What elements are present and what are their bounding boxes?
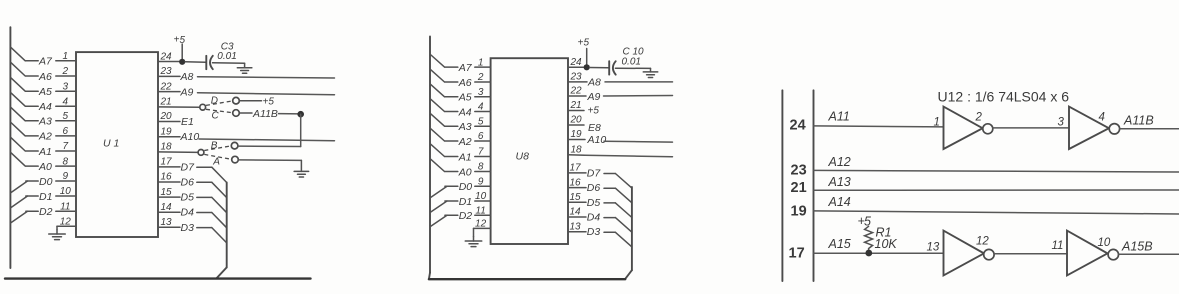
U8 pin 21 +5 bbox=[568, 100, 599, 116]
svg-text:A14: A14 bbox=[828, 195, 851, 209]
svg-text:D4: D4 bbox=[587, 212, 601, 224]
ground (C10) bbox=[643, 68, 658, 77]
svg-text:8: 8 bbox=[63, 156, 69, 167]
U8 pin 7 A1 bbox=[430, 144, 490, 163]
svg-text:6: 6 bbox=[63, 126, 69, 137]
svg-text:A7: A7 bbox=[458, 62, 473, 74]
U8 pin 6 A2 bbox=[430, 128, 490, 147]
U8 pin 8 A0 bbox=[430, 159, 490, 178]
pin 23 label bbox=[791, 163, 807, 179]
svg-text:14: 14 bbox=[570, 207, 582, 218]
svg-text:A0: A0 bbox=[458, 166, 472, 178]
svg-text:4: 4 bbox=[63, 96, 69, 107]
U1 pin 3 A5 bbox=[11, 78, 76, 98]
U8 pin 20 E8 bbox=[568, 115, 601, 134]
svg-text:21: 21 bbox=[160, 97, 172, 108]
wire A10 (U8) bbox=[604, 140, 673, 143]
junction dot (U1 pin 24) bbox=[179, 59, 185, 65]
svg-text:21: 21 bbox=[791, 180, 807, 196]
svg-text:19: 19 bbox=[161, 126, 173, 137]
svg-text:2: 2 bbox=[975, 112, 983, 124]
svg-text:A13: A13 bbox=[828, 175, 851, 189]
wire A15 bbox=[814, 252, 944, 254]
svg-text:A8: A8 bbox=[180, 71, 194, 83]
wire pin 18 (U8) bbox=[585, 155, 673, 156]
U8 pin 19 A10 bbox=[568, 129, 606, 146]
svg-text:20: 20 bbox=[160, 111, 173, 122]
capacitor C10 0.01 bbox=[609, 47, 644, 75]
svg-text:D1: D1 bbox=[459, 196, 472, 208]
svg-text:D2: D2 bbox=[39, 206, 53, 218]
svg-text:U 1: U 1 bbox=[103, 138, 119, 150]
svg-text:A11B: A11B bbox=[252, 108, 278, 120]
svg-text:B: B bbox=[211, 141, 218, 152]
svg-text:16: 16 bbox=[570, 177, 582, 188]
wire A11B out bbox=[1120, 128, 1179, 130]
wire A12 bbox=[814, 170, 1179, 172]
U1 pin 23 A8 bbox=[158, 66, 194, 83]
svg-text:18: 18 bbox=[571, 145, 583, 156]
svg-text:12: 12 bbox=[976, 236, 989, 248]
svg-text:9: 9 bbox=[478, 177, 484, 188]
junction node A15/R1 bbox=[865, 250, 872, 257]
svg-text:D3: D3 bbox=[587, 226, 601, 238]
svg-text:A3: A3 bbox=[458, 121, 472, 133]
svg-text:4: 4 bbox=[478, 102, 484, 113]
wire to C10 bbox=[590, 67, 609, 69]
svg-text:10K: 10K bbox=[875, 237, 898, 251]
svg-text:2: 2 bbox=[62, 66, 69, 77]
svg-text:13: 13 bbox=[570, 221, 582, 232]
wire to C3 bbox=[185, 61, 205, 63]
U8 pin 5 A3 bbox=[430, 114, 490, 133]
svg-text:+5: +5 bbox=[263, 96, 275, 107]
svg-text:A3: A3 bbox=[38, 116, 52, 128]
svg-text:A15B: A15B bbox=[1121, 240, 1153, 254]
U8 pin 2 A6 bbox=[430, 69, 490, 88]
svg-text:20: 20 bbox=[570, 115, 583, 126]
svg-text:D0: D0 bbox=[459, 181, 473, 193]
IC U1 bbox=[76, 52, 158, 237]
svg-text:C: C bbox=[212, 110, 220, 121]
svg-text:6: 6 bbox=[478, 131, 484, 142]
svg-text:5: 5 bbox=[63, 111, 69, 122]
svg-text:24: 24 bbox=[790, 118, 806, 134]
svg-text:4: 4 bbox=[1099, 112, 1105, 124]
U1 pin 24 stub bbox=[158, 51, 182, 62]
connector edge line (right) bbox=[813, 90, 815, 281]
pin 19 label bbox=[791, 204, 807, 220]
svg-text:22: 22 bbox=[160, 81, 173, 92]
svg-text:U12 : 1/6 74LS04 x 6: U12 : 1/6 74LS04 x 6 bbox=[938, 89, 1070, 105]
U8 pin 11 D2 bbox=[430, 205, 490, 226]
svg-text:5: 5 bbox=[180, 35, 186, 46]
svg-text:A15: A15 bbox=[828, 237, 851, 251]
inverter U12A (pins 1-2) bbox=[934, 107, 993, 149]
svg-text:3: 3 bbox=[478, 87, 484, 98]
svg-text:10: 10 bbox=[475, 191, 487, 202]
svg-text:14: 14 bbox=[161, 202, 173, 213]
svg-text:D2: D2 bbox=[459, 210, 473, 222]
svg-text:16: 16 bbox=[161, 172, 173, 183]
svg-text:1: 1 bbox=[63, 51, 69, 62]
svg-text:13: 13 bbox=[161, 217, 173, 228]
net label A13 bbox=[828, 175, 851, 189]
U8 pin 13 D3 bbox=[568, 221, 632, 247]
pin 17 label bbox=[789, 246, 805, 262]
input bus (U8 left) bbox=[429, 37, 430, 280]
+5 supply (R1) bbox=[858, 214, 872, 228]
svg-text:A4: A4 bbox=[458, 106, 472, 118]
svg-text:D5: D5 bbox=[181, 192, 195, 204]
U1 pin 22 A9 bbox=[158, 81, 194, 98]
U1 pin 15 D5 bbox=[158, 187, 227, 213]
U1 pin 1 A7 bbox=[11, 47, 76, 67]
U1 pin 4 A4 bbox=[11, 93, 76, 113]
ground (C3) bbox=[237, 63, 252, 73]
U1 pin 14 D4 bbox=[158, 202, 227, 228]
svg-text:1: 1 bbox=[478, 57, 484, 68]
net label A15B bbox=[1121, 240, 1153, 254]
net label A11B bbox=[252, 108, 278, 120]
wire A10 bbox=[199, 139, 335, 141]
svg-text:22: 22 bbox=[570, 86, 583, 97]
U1 pin 8 A0 bbox=[11, 153, 76, 173]
svg-text:A9: A9 bbox=[587, 91, 601, 103]
U8 pin 3 A5 bbox=[430, 84, 490, 103]
svg-text:17: 17 bbox=[570, 163, 582, 174]
IC U8 bbox=[491, 58, 568, 244]
svg-text:24: 24 bbox=[570, 57, 583, 68]
svg-text:17: 17 bbox=[161, 157, 173, 168]
svg-text:D1: D1 bbox=[39, 191, 52, 203]
svg-text:0.01: 0.01 bbox=[622, 56, 641, 67]
svg-text:A0: A0 bbox=[38, 161, 52, 173]
svg-text:10: 10 bbox=[60, 186, 72, 197]
svg-text:11: 11 bbox=[60, 201, 70, 212]
svg-text:+5: +5 bbox=[588, 106, 600, 117]
svg-text:18: 18 bbox=[161, 142, 173, 153]
svg-text:A12: A12 bbox=[828, 155, 851, 169]
svg-text:A10: A10 bbox=[180, 131, 200, 143]
U1 pin 5 A3 bbox=[11, 107, 76, 127]
svg-text:E1: E1 bbox=[181, 116, 194, 128]
svg-text:D7: D7 bbox=[587, 167, 602, 179]
svg-text:A7: A7 bbox=[38, 56, 53, 68]
U8 pin 17 D7 bbox=[568, 163, 632, 189]
net label A12 bbox=[828, 155, 851, 169]
svg-text:9: 9 bbox=[63, 171, 69, 182]
svg-text:1: 1 bbox=[934, 117, 940, 129]
svg-text:5: 5 bbox=[478, 116, 484, 127]
wire A15B out bbox=[1119, 253, 1179, 255]
pin 24 label bbox=[790, 118, 806, 134]
svg-text:0.01: 0.01 bbox=[217, 51, 236, 62]
svg-text:A11: A11 bbox=[828, 109, 850, 123]
wire U12C out to U12D in bbox=[994, 253, 1067, 255]
svg-text:D6: D6 bbox=[181, 177, 195, 189]
svg-text:A10: A10 bbox=[587, 134, 607, 146]
inverter U12C (pins 13-12) bbox=[927, 231, 995, 276]
svg-text:A6: A6 bbox=[38, 71, 52, 83]
jumper common pad (U1 pin 18) bbox=[198, 150, 204, 156]
U1 pin 20 E1 bbox=[158, 111, 194, 128]
svg-text:D: D bbox=[211, 96, 218, 107]
svg-text:11: 11 bbox=[1052, 240, 1064, 252]
resistor R1 10K bbox=[865, 226, 898, 253]
jumper option C to A11B bbox=[206, 109, 252, 121]
svg-text:A2: A2 bbox=[458, 136, 472, 148]
wire jumper B bbox=[238, 145, 301, 147]
svg-text:A11B: A11B bbox=[1123, 114, 1154, 128]
U8 pin 18 wire bbox=[568, 145, 585, 156]
U8 pin 1 A7 bbox=[430, 55, 490, 74]
U1 pin 7 A1 bbox=[11, 138, 76, 158]
U1 pin 11 D2 bbox=[11, 201, 76, 222]
svg-text:19: 19 bbox=[791, 204, 807, 220]
U8 pin 22 A9 bbox=[568, 86, 601, 103]
ground (U8 pin 12) bbox=[465, 237, 482, 247]
U1 pin 17 D7 bbox=[158, 157, 227, 183]
svg-text:D3: D3 bbox=[181, 222, 195, 234]
svg-text:U8: U8 bbox=[516, 151, 530, 163]
U8 pin 9 D0 bbox=[430, 177, 490, 198]
bottom rail (middle) bbox=[429, 278, 625, 280]
svg-text:E8: E8 bbox=[588, 122, 601, 134]
wire A8 bbox=[198, 77, 335, 78]
wire A9 (U8) bbox=[604, 95, 673, 98]
U8 pin 15 D5 bbox=[568, 192, 632, 218]
U8 pin 12 wire bbox=[474, 219, 491, 237]
svg-text:A2: A2 bbox=[38, 131, 52, 143]
wire A14 bbox=[814, 211, 1179, 214]
jumper option B to A11B bbox=[204, 141, 238, 152]
data bus (U8 right) bbox=[625, 187, 632, 279]
svg-text:7: 7 bbox=[478, 147, 484, 158]
svg-text:11: 11 bbox=[475, 205, 485, 216]
svg-text:24: 24 bbox=[160, 51, 173, 62]
U1 pin 6 A2 bbox=[11, 123, 76, 143]
ground (U1 pin 12) bbox=[49, 230, 66, 240]
U8 pin 4 A4 bbox=[430, 99, 490, 118]
U1 pin 12 wire bbox=[57, 217, 76, 230]
jumper option D to +5 bbox=[206, 96, 274, 108]
svg-text:15: 15 bbox=[161, 187, 173, 198]
svg-text:23: 23 bbox=[570, 72, 583, 83]
svg-text:D4: D4 bbox=[181, 207, 195, 219]
svg-text:3: 3 bbox=[63, 81, 69, 92]
svg-text:A9: A9 bbox=[180, 87, 194, 99]
bottom rail (left) bbox=[5, 277, 311, 279]
svg-text:12: 12 bbox=[475, 219, 487, 230]
ground (jumper A) bbox=[294, 160, 309, 177]
net label A11 bbox=[828, 109, 850, 123]
svg-text:12: 12 bbox=[60, 217, 72, 228]
svg-text:2: 2 bbox=[477, 72, 484, 83]
inverter U12B (pins 3-4) bbox=[1058, 107, 1120, 149]
svg-text:A5: A5 bbox=[38, 86, 52, 98]
jumper common pad (U1 pin 21) bbox=[200, 104, 206, 110]
wire A8 (U8) bbox=[605, 81, 673, 83]
U1 pin 10 D1 bbox=[11, 186, 76, 207]
junction node A11B bbox=[297, 111, 304, 118]
U1 pin 19 A10 bbox=[158, 126, 199, 143]
jumper option A to ground bbox=[204, 154, 238, 167]
U1 pin 9 D0 bbox=[11, 171, 76, 192]
svg-text:D5: D5 bbox=[587, 197, 601, 209]
U8 pin 16 D6 bbox=[568, 177, 632, 203]
U8 pin 14 D4 bbox=[568, 207, 632, 233]
+5 supply (U8 pin 24) bbox=[578, 37, 590, 67]
svg-text:10: 10 bbox=[1098, 237, 1111, 249]
wire A11 bbox=[814, 126, 944, 127]
svg-text:D0: D0 bbox=[39, 176, 53, 188]
U1 pin 13 D3 bbox=[158, 217, 227, 243]
svg-text:3: 3 bbox=[1058, 117, 1065, 129]
svg-text:7: 7 bbox=[63, 141, 69, 152]
net label A14 bbox=[828, 195, 851, 209]
svg-text:5: 5 bbox=[584, 38, 590, 49]
connector edge line (left) bbox=[781, 90, 783, 281]
+5 supply (U1 pin 24) bbox=[174, 35, 186, 62]
U1 pin 18 stub to jumper bbox=[158, 142, 198, 153]
net label A15 bbox=[828, 237, 851, 251]
svg-text:15: 15 bbox=[570, 192, 582, 203]
svg-text:A6: A6 bbox=[458, 77, 472, 89]
U1 pin 2 A6 bbox=[11, 63, 76, 83]
junction dot (U8 pin 24) bbox=[584, 64, 590, 70]
svg-text:D7: D7 bbox=[181, 161, 196, 173]
svg-text:23: 23 bbox=[160, 66, 173, 77]
wire A11B to junction bbox=[279, 113, 301, 115]
wire C10 to ground bbox=[615, 67, 650, 69]
inverter U12D (pins 11-10) bbox=[1052, 231, 1119, 276]
svg-text:8: 8 bbox=[478, 162, 484, 173]
net label A11B bbox=[1123, 114, 1154, 128]
wire A11B junction down to jumper B bbox=[300, 114, 302, 146]
wire jumper A bbox=[239, 159, 302, 162]
data bus (U1 right) bbox=[217, 183, 227, 279]
wire U12A out to U12B in bbox=[993, 127, 1069, 129]
page-edge line (left) bbox=[9, 27, 11, 268]
label U12 : 1/6 74LS04 x 6 bbox=[938, 89, 1070, 105]
pin 21 label bbox=[791, 180, 807, 196]
svg-text:19: 19 bbox=[571, 129, 583, 140]
wire A9 bbox=[198, 93, 335, 95]
svg-text:A1: A1 bbox=[458, 151, 472, 163]
capacitor C3 0.01 bbox=[206, 42, 236, 70]
svg-text:A8: A8 bbox=[587, 76, 601, 88]
svg-text:17: 17 bbox=[789, 246, 805, 262]
U8 pin 10 D1 bbox=[430, 191, 490, 212]
svg-text:13: 13 bbox=[927, 242, 940, 254]
U1 pin 21 stub to jumper bbox=[158, 97, 200, 108]
U8 pin 23 A8 bbox=[568, 72, 601, 89]
svg-text:21: 21 bbox=[570, 100, 582, 111]
U8 pin 24 stub bbox=[568, 57, 587, 68]
wire A13 bbox=[814, 189, 1179, 191]
svg-text:A1: A1 bbox=[38, 146, 52, 158]
svg-text:A: A bbox=[212, 156, 220, 167]
svg-text:A5: A5 bbox=[458, 92, 472, 104]
U1 pin 16 D6 bbox=[158, 172, 227, 198]
wire C3 to ground bbox=[213, 62, 245, 64]
svg-text:D6: D6 bbox=[587, 182, 601, 194]
svg-text:23: 23 bbox=[791, 163, 807, 179]
svg-text:A4: A4 bbox=[38, 101, 52, 113]
